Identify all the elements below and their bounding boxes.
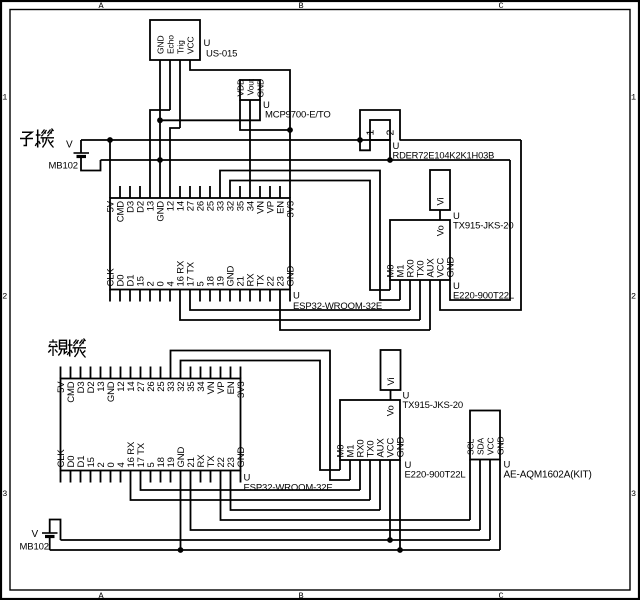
LoRa module U E220-900T22L (child) [390,220,450,280]
svg-text:Vo: Vo [435,225,446,236]
wire VCC rail child y=140 right part [400,139,522,141]
wire GND rail parent y=550 [50,549,500,551]
wire TX915-2 Vi to E220-2 Vo [390,390,392,400]
svg-text:E220-900T22L: E220-900T22L [405,470,466,481]
node VCC/5V junction at ESP32-1 5V [107,137,113,143]
node GND junction at capacitor pin2 [387,157,393,163]
svg-text:Vout: Vout [245,78,255,95]
antenna U TX915-JKS-20 (parent) [381,350,401,390]
svg-text:ESP32-WROOM-32E: ESP32-WROOM-32E [244,483,333,494]
wire capacitor pin1 loop [360,140,370,150]
svg-text:C: C [499,1,504,11]
wire ESP32-2 GND to GND rail [180,471,182,551]
wire MCP9700 Vout to GPIO34 [249,100,251,198]
node VCC junction E220-2 VCC [387,537,393,543]
wire GPIO17TX-2 to E220-2 RX0 [141,471,361,491]
wire VCC rail parent y=540 [61,539,491,541]
pin stubs ESP32-2 top [60,367,62,379]
wire capacitor pin2 to GND rail [389,140,391,160]
wire E220-1 M1 stub [399,280,401,300]
wire VCC rail child y=140 [81,139,391,141]
wire GPIO33 to E220-1 M1 [220,171,400,301]
wire GPIO17TX to E220-1 RX0 [190,290,410,311]
wire E220-1 AUX stub [429,280,431,330]
wire MCP9700 GND link [160,100,260,120]
wire GPIO21-2 to LCD SDA [191,471,481,531]
svg-text:2: 2 [631,292,636,302]
svg-text:C: C [499,591,504,600]
wire E220-2 RX0 stub [359,460,361,490]
svg-text:2: 2 [384,130,396,136]
capacitor U RDER72E104K2K1H03B [370,120,390,140]
wire E220-2 VCC to VCC rail [389,460,391,540]
svg-text:AE-AQM1602A(KIT): AE-AQM1602A(KIT) [504,470,592,481]
title 子機 (child unit) [22,132,32,137]
node junction US GND / MCP GND link [157,117,163,123]
svg-text:RDER72E104K2K1H03B: RDER72E104K2K1H03B [393,151,495,161]
wire LCD GND to GND rail [499,460,501,551]
wire TX915-1 Vi to E220-1 Vo [439,210,441,220]
svg-text:GND: GND [445,257,456,278]
wire GPIO32 to E220-1 M0 [230,181,390,291]
svg-text:3V3: 3V3 [285,201,296,217]
wire E220-1 GND to GND rail [450,160,510,300]
wire US-015 Echo down [169,60,171,110]
title 親機 (parent unit) [52,339,54,342]
wire battery1 + to VCC rail [80,140,82,153]
wire E220-1 TX0 stub [419,280,421,320]
wire GND rail child y=160 [101,159,511,161]
svg-text:VCC: VCC [185,36,195,54]
svg-text:GND: GND [255,79,265,97]
wire MCP9700 VDD to 3V3 [240,100,290,130]
node GND junction E220-2 GND [397,547,403,553]
svg-text:US-015: US-015 [206,49,237,60]
svg-text:3: 3 [2,489,7,499]
node GND junction at US-015 GND drop [157,157,163,163]
svg-text:SCL: SCL [465,438,475,455]
wire battery1 - jog [81,157,101,171]
wire GPIO32-2 to E220-2 M0 [181,361,341,471]
svg-text:Vi: Vi [386,377,397,385]
wire E220-1 VCC to VCC rail [440,140,521,310]
svg-text:VCC: VCC [485,437,495,455]
svg-text:Vo: Vo [385,405,396,416]
svg-text:GND: GND [395,437,406,458]
node junction 3V3 / MCP VDD [287,127,293,133]
svg-text:U: U [293,291,300,302]
ultrasonic sensor U US-015 [150,20,200,60]
svg-text:3: 3 [631,489,636,499]
wire US-015 Trig down [179,60,181,128]
svg-text:MB102: MB102 [49,161,78,172]
wire battery2 + jog to VCC rail [50,520,61,541]
LoRa module U E220-900T22L (parent) [340,400,400,460]
wire GPIO23-2 to E220-2 AUX [231,471,381,511]
wire E220-1 M0 stub [389,280,391,290]
wire GPIO16RX to E220-1 TX0 [180,290,420,321]
svg-text:V: V [66,140,73,151]
wire E220-1 RX0 stub [409,280,411,310]
wire E220-2 GND to GND rail [399,460,401,550]
wire GPIO33-2 to E220-2 M1 [171,351,351,481]
wire Echo jog to GPIO13 [150,110,170,198]
microcontroller U ESP32-WROOM-32E (parent) [61,379,241,471]
svg-text:2: 2 [2,292,7,302]
pin stubs ESP32-1 top [119,186,121,198]
svg-text:SDA: SDA [475,437,485,455]
wire Trig jog to GPIO12 [170,128,180,198]
wire E220-2 M0 stub [339,460,341,470]
microcontroller U ESP32-WROOM-32E (child) [110,198,290,290]
pin stubs ESP32-1 bottom [109,290,111,302]
svg-text:MB102: MB102 [20,542,49,553]
LCD module U AE-AQM1602A(KIT) [470,411,500,460]
wire LCD VCC to VCC rail [489,460,491,541]
node GND junction ESP32-2 GND [178,547,184,553]
wire LCD SCL down [469,460,471,521]
svg-text:GND: GND [236,447,247,468]
node VCC junction at capacitor [357,137,363,143]
wire LCD SDA down [479,460,481,531]
wire E220-2 TX0 stub [369,460,371,500]
svg-text:VDD: VDD [235,79,245,97]
antenna U TX915-JKS-20 (child) [430,170,450,210]
wire battery2 - to GND rail [49,537,51,551]
wire US-015 GND to ESP32-1 GND [159,60,161,198]
wire E220-2 AUX stub [379,460,381,510]
wire E220-2 M1 stub [349,460,351,480]
svg-text:3V3: 3V3 [236,382,247,398]
svg-text:1: 1 [2,93,7,103]
svg-text:Vi: Vi [435,197,446,205]
svg-text:V: V [32,529,39,540]
wire GPIO22-2 to LCD SCL [221,471,471,521]
svg-text:TX915-JKS-20: TX915-JKS-20 [453,221,514,232]
svg-text:Echo: Echo [165,35,175,54]
svg-text:TX915-JKS-20: TX915-JKS-20 [403,400,464,411]
wire capacitor arch over [360,110,400,140]
svg-text:GND: GND [285,266,296,287]
svg-text:1: 1 [631,93,636,103]
wire GPIO23 to E220-1 AUX [280,290,430,331]
wire 5V drop to ESP32-1 5V pin [109,140,111,198]
svg-text:GND: GND [155,36,165,54]
svg-text:Trig: Trig [175,40,185,54]
svg-text:1: 1 [364,130,376,136]
svg-text:B: B [299,1,304,11]
svg-text:GND: GND [495,437,505,455]
wire US-015 VCC to 3V3 rail [190,60,290,198]
svg-text:MCP9700-E/TO: MCP9700-E/TO [265,110,331,121]
wire GPIO16RX-2 to E220-2 TX0 [131,471,371,501]
svg-text:U: U [204,38,211,49]
svg-text:B: B [299,591,304,600]
pin stubs ESP32-2 bottom [60,471,62,483]
temperature sensor U MCP9700-E/TO [240,80,260,100]
